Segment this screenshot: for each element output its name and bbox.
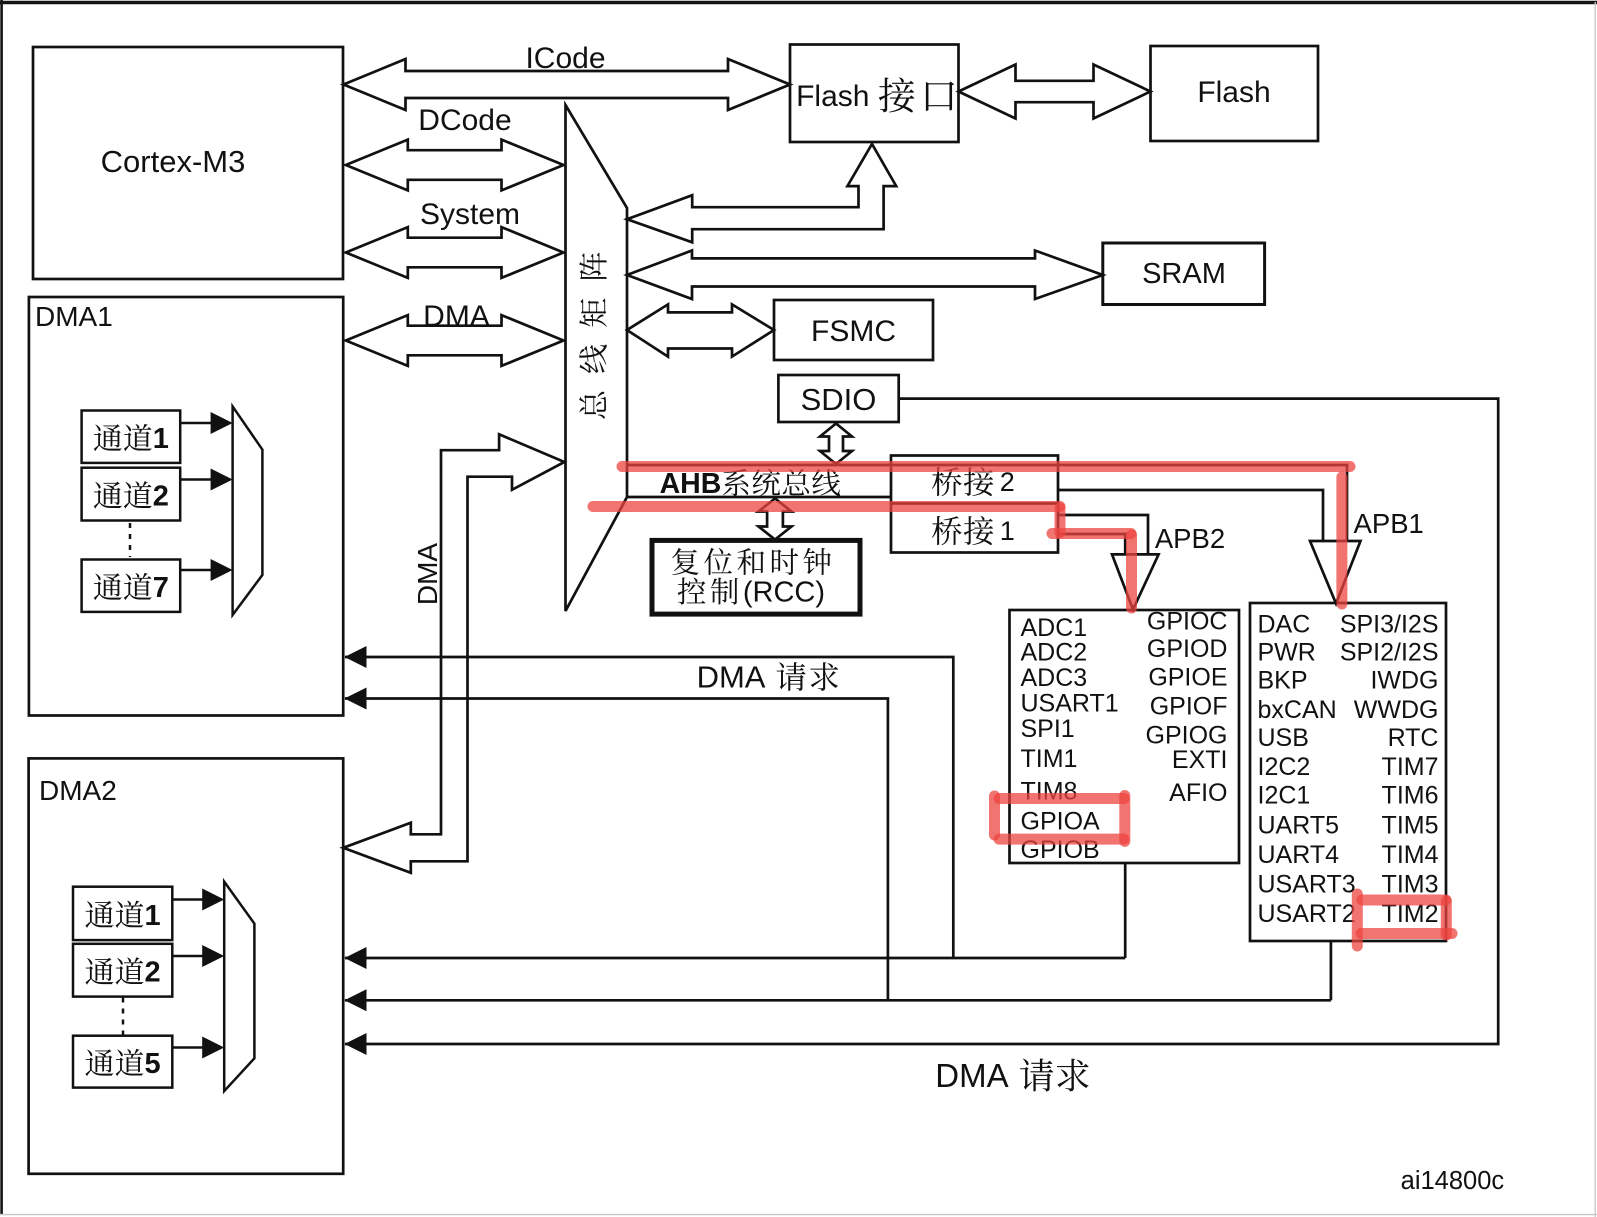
DMA2 channel → mux arrow [172,898,203,901]
wire: APB1 requests to DMA2 [345,999,1331,1002]
Cortex-M3 box [33,47,343,279]
red highlight: AHB top line [622,461,1350,472]
svg-text:GPIOA: GPIOA [1021,808,1101,836]
DMA2 box [29,758,344,1173]
red highlight: vertical to APB2 [1126,535,1137,608]
wire: APB2 requests to DMA2 [345,957,1125,960]
svg-text:DMA: DMA [423,300,490,333]
svg-text:WWDG: WWDG [1354,696,1439,724]
svg-text:Flash: Flash [1197,76,1270,109]
svg-text:ICode: ICode [525,42,605,75]
svg-text:DMA: DMA [412,543,443,606]
DMA2 channel → mux arrow [172,1046,203,1049]
red box around GPIOA [999,793,1124,804]
page border left [0,0,3,1214]
DMA rotated label [412,543,443,606]
svg-text:DAC: DAC [1258,611,1311,639]
svg-text:UART5: UART5 [1258,811,1340,839]
svg-text:SPI2/I2S: SPI2/I2S [1340,639,1439,667]
wire: bus matrix ↔ SRAM double arrow [627,251,1103,300]
wire: bridge1 → APB2 (upper) [1058,515,1148,554]
svg-text:GPIOC: GPIOC [1147,607,1228,635]
svg-text:TIM7: TIM7 [1382,753,1439,781]
svg-text:SPI1: SPI1 [1021,715,1075,743]
bridge 1 label [932,516,962,545]
DMA2 channel box 通道2 [73,944,172,997]
svg-text:GPIOD: GPIOD [1147,635,1228,663]
AHB system bus top line (to APB1 arrow) [627,465,1347,541]
svg-text:APB2: APB2 [1155,523,1225,554]
Flash interface ↔ Flash double arrow [959,65,1151,119]
svg-text:USART3: USART3 [1258,871,1356,899]
svg-text:GPIOE: GPIOE [1148,663,1227,691]
big bent DMA arrow (bus matrix ↔ DMA2) [343,434,564,873]
SDIO box [778,375,898,422]
svg-text:2: 2 [153,481,169,513]
svg-text:5: 5 [145,1048,161,1080]
SDIO ↔ AHB small double arrow [820,424,852,465]
red box around TIM2 [1362,895,1446,906]
System double arrow [346,227,564,278]
svg-text:1: 1 [1000,516,1015,546]
svg-text:TIM5: TIM5 [1382,811,1439,839]
wire: bus matrix ↔ Flash interface (hollow two-headed path) [627,144,896,242]
svg-text:AFIO: AFIO [1169,779,1227,807]
APB2 hollow arrowhead [1112,554,1159,609]
APB2 peripherals box [1010,610,1240,863]
page border right [1594,2,1596,1217]
AHB system bus bottom line [627,496,891,499]
DCode double arrow [346,140,564,191]
DMA1 mux trapezoid [233,406,263,615]
svg-text:USART2: USART2 [1258,900,1356,928]
svg-text:1: 1 [153,423,169,455]
svg-text:I2C2: I2C2 [1258,753,1311,781]
FSMC box [774,300,933,360]
wire: DMA request line to DMA1 (from APB1 junction) [345,699,888,1001]
svg-text:RTC: RTC [1388,724,1439,752]
wire: SDIO DMA request (right side big loop) [345,399,1498,1044]
svg-text:7: 7 [153,572,169,604]
Flash box [1151,46,1319,141]
svg-text:TIM1: TIM1 [1021,745,1078,773]
svg-text:SPI3/I2S: SPI3/I2S [1340,611,1439,639]
red highlight: bridge1 to APB2 horizontal [1052,528,1131,539]
svg-text:APB1: APB1 [1354,508,1424,539]
bridge box (桥接2 / 桥接1) [891,456,1058,553]
svg-text:TIM6: TIM6 [1382,782,1439,810]
DMA2 mux trapezoid [224,882,254,1092]
DMA1 channel → mux arrow [180,478,212,481]
svg-text:2: 2 [145,957,161,989]
wire: DMA request line to DMA1 (from APB2 junction) [345,657,953,958]
DMA double arrow [346,315,564,366]
svg-text:Cortex-M3: Cortex-M3 [101,144,246,179]
svg-text:ADC3: ADC3 [1021,664,1088,692]
DMA2 channels dashed line [122,998,125,1036]
svg-text:System: System [420,198,520,231]
DMA2 channel → mux arrow [172,955,203,958]
Flash interface box (Flash 接口) [790,45,959,143]
svg-text:SDIO: SDIO [801,382,877,417]
svg-text:bxCAN: bxCAN [1258,696,1337,724]
DMA1 channel → mux arrow [180,569,212,572]
red highlight: vertical to APB1 [1336,477,1347,604]
svg-text:GPIOF: GPIOF [1150,693,1228,721]
DMA2 channel box 通道1 [73,887,172,940]
red highlight: AHB bottom / bridge divider [593,501,1060,512]
arrowhead into DMA1 (line 1) [345,646,367,668]
svg-text:I2C1: I2C1 [1258,782,1311,810]
DMA1 channel box 通道1 [82,411,181,463]
wire: APB2 DMA request down [1124,863,1127,958]
ICode bus double arrow [344,59,791,110]
svg-text:1: 1 [145,900,161,932]
svg-text:(RCC): (RCC) [743,576,825,608]
bus matrix polygon (总线矩阵) [566,105,628,611]
DMA1 channel box 通道7 [82,560,181,612]
APB1 peripherals box [1250,603,1446,941]
bridge 2 label [932,467,962,496]
svg-text:TIM3: TIM3 [1382,871,1439,899]
DMA1 channel → mux arrow [180,422,212,425]
wire: bus matrix ↔ FSMC double arrow [627,304,774,356]
svg-text:PWR: PWR [1258,639,1316,667]
svg-text:TIM4: TIM4 [1382,841,1439,869]
RCC box (复位和时钟控制) [652,540,860,614]
wire: bridge2 → APB1 [1058,490,1323,541]
DMA2 channel box 通道5 [73,1036,172,1088]
svg-text:DMA1: DMA1 [35,301,113,332]
svg-text:Flash: Flash [796,80,869,113]
arrowhead into DMA1 (line 2) [345,688,367,710]
svg-text:EXTI: EXTI [1172,746,1228,774]
AHB ↔ RCC small double arrow [759,499,792,540]
svg-text:ADC2: ADC2 [1021,638,1088,666]
svg-text:FSMC: FSMC [811,315,896,348]
svg-text:ai14800c: ai14800c [1401,1167,1505,1195]
svg-text:IWDG: IWDG [1370,666,1438,694]
page border bottom [0,1214,1597,1216]
svg-text:DMA2: DMA2 [39,775,117,806]
svg-text:USB: USB [1258,724,1309,752]
red highlight: bridge1 corner down [1055,508,1066,533]
wire: bridge1 → APB2 (lower) [1058,534,1125,554]
svg-text:AHB: AHB [660,468,722,500]
svg-text:USART1: USART1 [1021,690,1119,718]
APB1 hollow arrowhead [1310,541,1361,604]
SRAM box [1103,243,1265,305]
DMA1 channel box 通道2 [82,468,181,521]
svg-text:DCode: DCode [418,104,511,137]
svg-text:UART4: UART4 [1258,841,1340,869]
wire: APB1 DMA request down [1330,941,1333,1000]
page border top [0,1,1597,4]
svg-text:DMA: DMA [935,1057,1008,1094]
bus matrix rotated label 总线矩阵 [579,392,606,419]
svg-text:DMA: DMA [697,660,766,695]
DMA1 channels dashed line [129,523,132,557]
svg-text:SRAM: SRAM [1142,258,1226,290]
svg-text:BKP: BKP [1258,666,1308,694]
DMA1 box [29,297,343,716]
